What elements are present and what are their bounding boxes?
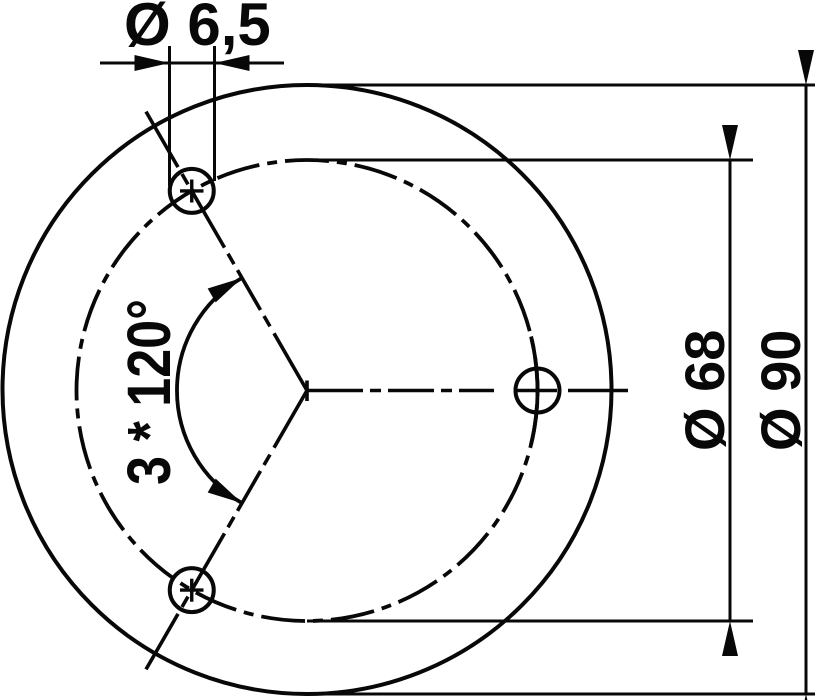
dimension Ø90 : extension line bottom: [307, 693, 815, 696]
svg-text:3 * 120°: 3 * 120°: [115, 299, 183, 485]
svg-text:Ø 68: Ø 68: [673, 330, 736, 451]
dimension Ø68 : extension line top: [307, 159, 753, 162]
dimension arc 3*120deg: [177, 278, 242, 503]
hole H3 right Ø6,5: [516, 369, 560, 413]
bolt circle solid arc through right hole: [531, 337, 537, 445]
outer circle Ø90: [3, 85, 612, 694]
svg-text:Ø 90: Ø 90: [749, 330, 812, 451]
dimension Ø68 : dimension line: [729, 160, 732, 621]
center line 240deg (dash-dot): [146, 391, 307, 670]
dimension Ø6,5 : extension line left: [168, 46, 171, 186]
center line 120deg (dash-dot): [146, 112, 307, 391]
bolt circle Ø68 (dash-dot): [77, 160, 538, 621]
hole H1 top-left Ø6,5: [170, 169, 214, 213]
arc arrow bottom: [208, 479, 246, 510]
hole H2 bottom-left Ø6,5: [170, 568, 214, 612]
dimension Ø90 : dimension line: [805, 85, 808, 694]
svg-text:Ø 6,5: Ø 6,5: [124, 0, 271, 58]
dimension Ø68 : extension line bottom: [307, 620, 753, 623]
arrow left: [135, 55, 170, 71]
arc arrow top: [208, 271, 246, 302]
dimension Ø6,5 : dimension line: [100, 62, 284, 65]
dimension Ø90 : extension line top: [307, 84, 815, 87]
arrow down: [798, 694, 814, 700]
hole H2 center cross: [180, 579, 204, 602]
hole H1 center cross: [180, 180, 204, 203]
arrow down: [722, 621, 738, 656]
arrow up: [722, 125, 738, 160]
center line horizontal (dash-dot): [307, 389, 628, 393]
arrow right: [215, 55, 250, 71]
dimension Ø6,5 : extension line right: [213, 46, 216, 181]
arrow up: [798, 50, 814, 85]
center tick: [305, 381, 309, 402]
